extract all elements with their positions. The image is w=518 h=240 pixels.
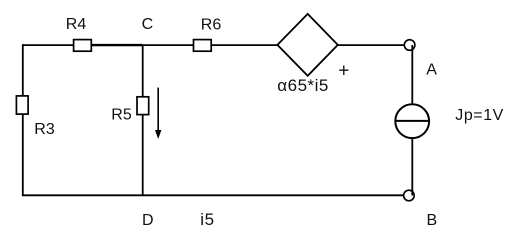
wire middle vertical upper (node C to R5) xyxy=(142,45,144,97)
svg-text:R6: R6 xyxy=(201,16,222,33)
wire from R4 to node C (double-drawn, thicker) xyxy=(91,44,143,46)
wire right vertical upper (terminal A to source Jp) xyxy=(411,45,413,104)
svg-text:Jp=1V: Jp=1V xyxy=(455,107,504,124)
resistor R6 xyxy=(194,16,222,51)
current arrow i5 (pointing down) xyxy=(155,88,161,139)
terminal B (open circle) xyxy=(404,190,415,201)
svg-text:C: C xyxy=(142,16,154,33)
wire left vertical lower (R3 to bottom corner) xyxy=(22,114,24,195)
svg-text:R5: R5 xyxy=(111,106,132,123)
terminal A (open circle) xyxy=(404,40,415,51)
dependent source U1 (diamond, alpha65*i5) xyxy=(277,14,338,95)
source Jp (circle with horizontal bar) xyxy=(395,104,430,138)
svg-text:D: D xyxy=(142,212,154,229)
svg-text:R4: R4 xyxy=(66,16,87,33)
wire middle vertical lower (R5 to node D) xyxy=(142,114,144,195)
svg-text:R3: R3 xyxy=(34,121,55,138)
resistor R3 xyxy=(16,96,54,138)
wire top segment from left corner to R4 xyxy=(23,44,74,46)
svg-text:B: B xyxy=(427,212,438,229)
wire left vertical upper (corner to R3) xyxy=(22,44,24,96)
resistor R5 xyxy=(111,97,148,124)
wire stub inside terminal B xyxy=(411,190,413,196)
svg-text:α65*i5: α65*i5 xyxy=(277,76,329,95)
wire bottom horizontal (node D rail to terminal B) xyxy=(22,194,403,196)
wire from diamond source to terminal A xyxy=(338,44,405,46)
wire right vertical lower (source Jp to terminal B) xyxy=(411,139,413,195)
resistor R4 xyxy=(66,16,92,51)
wire from R6 to diamond source xyxy=(211,44,278,46)
svg-text:A: A xyxy=(426,61,437,78)
svg-text:i5: i5 xyxy=(200,210,215,229)
svg-text:+: + xyxy=(338,60,349,81)
wire stub inside terminal A down xyxy=(411,45,413,51)
wire from node C to R6 xyxy=(143,44,194,46)
